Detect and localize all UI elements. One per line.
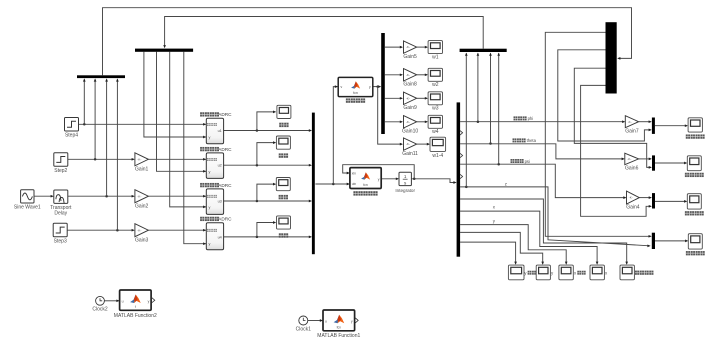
wire Transport Delay to Gain2 (68, 195, 134, 197)
scope channel display (276, 136, 290, 149)
wire state feedback loop to plant xin (343, 165, 415, 179)
svg-text:phi: phi (528, 116, 534, 121)
wire branch rotor vector to Gain11 (378, 87, 402, 145)
svg-text:fcn: fcn (337, 326, 341, 330)
wire Demux3 to Gain9 (385, 97, 402, 99)
gain Gain11 (404, 138, 417, 150)
wire roll ref to Mux4 (558, 50, 651, 141)
gain Gain3 (135, 224, 149, 237)
svg-text:MATLAB Function1: MATLAB Function1 (317, 333, 360, 339)
matlab function conversion matrix (338, 77, 373, 96)
wire ADRC output u1 to Mux2 (224, 130, 311, 132)
scope y velocity (508, 265, 524, 280)
svg-text:fcn: fcn (363, 183, 368, 187)
integrator block (399, 172, 411, 185)
svg-text:-K-: -K- (406, 96, 410, 100)
wire Clock2 to MATLAB Function2 (104, 300, 118, 302)
wire Gain7 to Mux4 (639, 121, 651, 123)
svg-text:Gain8: Gain8 (403, 82, 417, 88)
mux Mux6 (652, 193, 655, 208)
wire branch u1 to scope (257, 112, 275, 131)
demux Demux3 (381, 33, 385, 134)
demux Demux2 (606, 22, 617, 93)
wire Gain6 to Mux5 (639, 158, 651, 160)
wire y-velocity row to scope (460, 242, 515, 264)
junction node u vector branch (332, 183, 335, 186)
svg-text:Step4: Step4 (65, 133, 78, 139)
clock Clock2 (96, 296, 105, 305)
mux Mux1 (77, 75, 125, 78)
matlab function MATLAB Function2 (120, 290, 152, 310)
svg-text:-K-: -K- (406, 45, 410, 49)
svg-text:u3: u3 (218, 199, 222, 203)
wire ADRC output u2 to Mux2 (224, 164, 311, 166)
wire riser phi to Mux3 (477, 53, 479, 122)
scope pitch channel (687, 156, 701, 171)
wire phi row to Gain7 (460, 121, 624, 123)
junction node Transport Delay row (105, 195, 108, 198)
gain Gain4 (627, 191, 640, 204)
svg-text:w3: w3 (432, 106, 439, 112)
svg-text:Gain6: Gain6 (625, 165, 639, 171)
svg-text:Integrator: Integrator (395, 188, 415, 193)
wire Demux3 to Gain8 (385, 74, 402, 76)
svg-text:-K-: -K- (406, 120, 410, 124)
wire pitch ref to Mux5 (574, 68, 651, 167)
svg-text:-K-: -K- (628, 120, 632, 124)
wire Demux1 out1 to ADRC1 y input (144, 52, 206, 137)
svg-text:y: y (209, 242, 211, 246)
svg-text:-K-: -K- (137, 157, 141, 161)
wire branch u4 to scope (257, 223, 275, 237)
unconnected port psidot (460, 174, 463, 178)
matlab function MATLAB Function1 (323, 310, 355, 331)
wire branch u2 to scope (257, 143, 275, 166)
wire Clock1 to MATLAB Function1 (308, 320, 322, 322)
svg-text:theta: theta (527, 138, 537, 143)
scope y position (536, 265, 550, 280)
wire riser Transport Delay to Mux1 (106, 79, 108, 196)
svg-text:-K-: -K- (406, 73, 410, 77)
junction node u4 branch (256, 236, 259, 239)
wire Step4 row to ADRC1 ref input (79, 123, 206, 125)
scope roll channel (688, 118, 702, 132)
junction node psi (497, 163, 500, 166)
junction node u3 branch (256, 200, 259, 203)
mux Mux5 (652, 155, 655, 170)
scope channel display (276, 178, 290, 191)
svg-text:Gain2: Gain2 (135, 203, 149, 209)
wire top loop Mux3 to Demux1 (165, 17, 484, 49)
unconnected port thetadot (460, 153, 463, 157)
svg-text:Sine Wave1: Sine Wave1 (14, 204, 41, 210)
gain Gain7 (625, 116, 638, 128)
transport delay block (54, 190, 68, 203)
wire y row to scope (460, 225, 566, 264)
svg-text:u4: u4 (218, 235, 222, 239)
scope w1 (428, 41, 442, 54)
junction node state feedback (413, 178, 416, 181)
svg-text:ADRC: ADRC (218, 147, 232, 152)
net label yaw psi (511, 159, 515, 163)
gain Gain10 (404, 116, 417, 128)
subsystem ADRC1 (206, 118, 223, 144)
svg-text:-K-: -K- (406, 142, 410, 146)
junction node Step3 row (116, 229, 119, 232)
svg-text:xin: xin (352, 172, 356, 176)
matlab function quadrotor plant (350, 168, 381, 189)
svg-text:Gain10: Gain10 (402, 129, 418, 135)
svg-text:Gain3: Gain3 (135, 237, 149, 243)
wire Demux1 out2 to ADRC2 y input (157, 52, 206, 172)
svg-text:y: y (378, 177, 380, 181)
net label pitch theta (513, 138, 517, 142)
svg-text:w4: w4 (432, 129, 439, 135)
svg-text:-K-: -K- (627, 157, 631, 161)
wire Gain5 to scope w1 (417, 46, 427, 48)
wire branch u3 to scope (257, 184, 275, 201)
step source Step4 (65, 118, 79, 132)
svg-text:Gain11: Gain11 (402, 151, 418, 157)
svg-text:-K-: -K- (137, 194, 141, 198)
junction node rotor speed vector (376, 85, 379, 88)
wire Step2 to Gain1 (68, 158, 134, 160)
step source Step2 (54, 153, 68, 167)
wire riser Step4 to Mux1 (83, 79, 85, 124)
svg-text:y: y (209, 205, 211, 209)
svg-text:u: u (325, 319, 327, 323)
wire Mux5 to pitch scope (655, 162, 686, 164)
svg-text:ADRC: ADRC (218, 217, 232, 222)
wire climb-rate row to scope (460, 199, 627, 264)
junction node theta (489, 142, 492, 145)
unconnected port MATLAB Function2 output (152, 298, 155, 303)
svg-text:u2: u2 (218, 164, 222, 168)
svg-text:psi: psi (525, 159, 530, 164)
junction node phi (477, 120, 480, 123)
gain Gain1 (135, 153, 149, 166)
svg-text:y: y (209, 136, 211, 140)
svg-text:v: v (341, 85, 343, 89)
svg-text:1: 1 (404, 174, 407, 179)
junction node u2 branch (256, 164, 259, 167)
sine source Sine Wave1 (21, 190, 34, 203)
mux Mux7 (652, 233, 655, 249)
scope climb rate (620, 265, 634, 280)
scope channel display (277, 105, 291, 118)
svg-text:Delay: Delay (54, 211, 67, 217)
svg-text:Gain9: Gain9 (403, 105, 417, 111)
wire Gain4 to Mux6 (640, 197, 651, 199)
svg-text:Gain1: Gain1 (135, 166, 149, 172)
svg-text:Step2: Step2 (54, 168, 67, 174)
junction node z (465, 186, 468, 189)
svg-text:Step3: Step3 (54, 238, 67, 244)
gain Gain5 (404, 41, 417, 53)
subsystem ADRC2 (206, 153, 223, 179)
wire Gain1 to ADRC2 ref input (148, 158, 205, 160)
wire psi row to Gain4 (460, 164, 625, 197)
wire Gain10 to scope w4 (417, 121, 427, 123)
svg-text:w1-4: w1-4 (432, 153, 443, 159)
wire Mux6 to yaw scope (655, 200, 686, 202)
wire Gain11 to scope w1-4 (417, 143, 429, 145)
wire Sine Wave1 to Transport Delay (34, 195, 53, 197)
svg-text:f: f (135, 305, 136, 309)
wire Mux4 to roll scope (655, 125, 687, 127)
svg-text:w2: w2 (432, 82, 439, 88)
junction node u1 branch (256, 129, 259, 132)
wire yaw ref to Mux6 (581, 85, 651, 216)
svg-text:y: y (351, 319, 353, 323)
svg-text:Gain4: Gain4 (626, 205, 640, 211)
wire x row to scope (460, 211, 597, 264)
svg-text:z: z (505, 182, 507, 187)
unconnected port phidot (460, 131, 463, 135)
svg-text:Gain7: Gain7 (625, 128, 639, 134)
wire riser Step3 to Mux1 (116, 79, 118, 230)
junction node Step2 row (94, 158, 97, 161)
svg-text:ADRC: ADRC (218, 112, 232, 117)
wire Mux7 to altitude scope (655, 240, 687, 242)
unconnected port MATLAB Function1 output (355, 318, 358, 323)
svg-text:Clock1: Clock1 (296, 326, 312, 332)
gain Gain2 (135, 190, 149, 203)
svg-text:Gain5: Gain5 (403, 54, 417, 60)
gain Gain6 (625, 153, 639, 165)
wire conversion matrix output to Demux3 (373, 86, 380, 88)
wire riser theta to Mux3 (490, 53, 492, 143)
scope altitude channel (688, 234, 702, 249)
scope w4 (428, 115, 442, 128)
scope w1-4 (430, 137, 446, 151)
wire Demux1 out3 to ADRC3 y input (170, 52, 206, 207)
wire theta row to Gain6 (460, 144, 623, 159)
svg-text:y: y (148, 300, 150, 304)
demux Demux1 (135, 49, 193, 52)
wire Gain3 to ADRC4 ref input (148, 229, 205, 231)
wire riser Step2 to Mux1 (94, 79, 96, 159)
wire plant output to Integrator (381, 178, 398, 180)
svg-text:-K-: -K- (629, 196, 633, 200)
net label roll phi (514, 116, 518, 120)
clock Clock1 (299, 316, 308, 325)
wire ADRC output u3 to Mux2 (224, 200, 311, 202)
scope x position (590, 265, 604, 280)
wire Integrator output to Demux4 (412, 179, 456, 183)
step source Step3 (53, 223, 67, 237)
scope x velocity (559, 265, 573, 280)
junction node Step4 row (83, 123, 86, 126)
svg-text:y: y (209, 170, 211, 174)
wire x-velocity row to scope (460, 232, 543, 263)
wire riser z to Mux3 (465, 53, 467, 187)
demux Demux4 (457, 102, 461, 256)
wire Step3 to Gain3 (67, 229, 134, 231)
gain Gain9 (404, 92, 417, 104)
wire altitude ref to Mux7 (545, 32, 650, 236)
wire top loop Mux1 to Demux2 (103, 8, 632, 76)
mux Mux4 (652, 118, 655, 134)
wire z row to Mux7 altitude compare (460, 187, 649, 246)
svg-text:u: u (122, 300, 124, 304)
svg-text:Clock2: Clock2 (92, 307, 108, 313)
scope w3 (428, 92, 442, 105)
scope channel display (277, 216, 291, 229)
subsystem ADRC4 (206, 223, 223, 250)
svg-text:y: y (369, 85, 371, 89)
mux Mux2 (312, 113, 315, 255)
wire ADRC output u4 to Mux2 (224, 236, 311, 238)
svg-text:ADRC: ADRC (218, 183, 232, 188)
wire branch u vector to conversion matrix input (333, 87, 337, 184)
svg-text:u1: u1 (218, 129, 222, 133)
wire Demux3 to Gain10 (385, 121, 402, 123)
wire Gain9 to scope w3 (417, 97, 427, 99)
scope w2 (428, 68, 442, 81)
wire Mux2 output to plant uin (315, 183, 349, 185)
wire Gain8 to scope w2 (417, 74, 427, 76)
wire Gain2 to ADRC3 ref input (148, 195, 205, 197)
svg-text:uin: uin (352, 182, 356, 186)
svg-text:fcn: fcn (353, 91, 358, 95)
mux Mux3 (460, 49, 507, 52)
svg-text:MATLAB Function2: MATLAB Function2 (114, 313, 157, 319)
wire Demux3 to Gain5 (385, 46, 402, 48)
subsystem ADRC3 (206, 189, 223, 215)
wire riser psi to Mux3 (498, 53, 500, 164)
svg-text:w1: w1 (432, 54, 439, 60)
svg-text:-K-: -K- (137, 228, 141, 232)
wire Demux1 out4 to ADRC4 y input (184, 52, 206, 244)
scope yaw channel (687, 194, 701, 209)
gain Gain8 (404, 69, 417, 81)
